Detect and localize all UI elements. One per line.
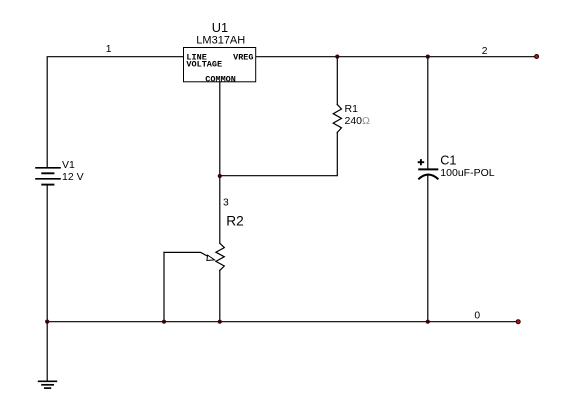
svg-text:COMMON: COMMON bbox=[205, 74, 236, 84]
svg-text:12 V: 12 V bbox=[62, 171, 84, 183]
svg-text:VREG: VREG bbox=[233, 52, 253, 62]
svg-text:R1: R1 bbox=[345, 103, 359, 115]
svg-text:C1: C1 bbox=[440, 154, 456, 168]
svg-text:VOLTAGE: VOLTAGE bbox=[186, 60, 222, 70]
svg-text:0: 0 bbox=[474, 310, 480, 321]
svg-text:U1: U1 bbox=[212, 20, 228, 35]
svg-text:2: 2 bbox=[482, 46, 488, 57]
svg-text:100uF-POL: 100uF-POL bbox=[440, 167, 494, 179]
svg-text:1: 1 bbox=[106, 44, 112, 55]
svg-text:3: 3 bbox=[223, 197, 229, 208]
svg-text:240Ω: 240Ω bbox=[345, 115, 371, 127]
svg-text:LM317AH: LM317AH bbox=[196, 34, 245, 46]
svg-text:V1: V1 bbox=[62, 159, 75, 171]
svg-text:R2: R2 bbox=[226, 213, 244, 228]
